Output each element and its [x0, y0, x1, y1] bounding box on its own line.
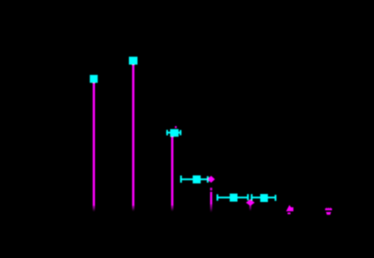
cyan error bar 5a left cap: [217, 194, 219, 200]
cyan error bar 5a horizontal: [217, 197, 249, 199]
magenta diamond 5: [246, 199, 255, 206]
magenta drop line 2 fading tip: [132, 206, 134, 212]
cyan error bar 5a right cap: [247, 194, 249, 200]
magenta drop line 3 fading tip: [171, 206, 173, 212]
cyan square point 3: [170, 129, 179, 137]
cyan error bar 4 right cap: [207, 176, 209, 182]
cyan error bar 3 horizontal: [166, 132, 181, 134]
cyan error bar 3 right cap: [180, 130, 182, 135]
cyan error bar 3 left cap: [166, 130, 168, 136]
magenta diamond 4: [207, 176, 215, 183]
magenta dashed drop line below diamond 4: dash segment: [210, 188, 212, 191]
magenta dash below marker 6: [288, 213, 291, 215]
magenta drop line 2: [132, 64, 134, 206]
magenta dashed drop line below diamond 4: fading tip: [210, 204, 212, 212]
cyan square point 5b: [260, 194, 268, 202]
magenta drop line 1 fading tip: [93, 206, 95, 212]
cyan error bar 5b left cap: [251, 194, 253, 200]
cyan square point 2: [129, 57, 138, 65]
magenta triangle marker 6: [286, 205, 293, 211]
cyan square point 1: [90, 75, 98, 83]
magenta diamond 5 fading tail: [249, 205, 251, 211]
magenta drop line 1: [93, 83, 95, 206]
cyan square point 5a: [230, 194, 238, 202]
cyan error bar 4 horizontal: [180, 178, 208, 180]
cyan error bar 5b horizontal: [251, 197, 276, 199]
cyan square point 4: [193, 175, 201, 183]
cyan error bar 5b right cap: [275, 195, 277, 201]
magenta marker 7 top blob: [325, 207, 332, 210]
magenta drop line 3: [171, 136, 173, 205]
magenta marker 7 bottom blob: [326, 212, 331, 215]
magenta dashed drop line below diamond 4: bright segment: [210, 192, 212, 205]
magenta dot above point 3: [175, 126, 177, 128]
cyan error bar 4 left cap: [180, 176, 182, 183]
